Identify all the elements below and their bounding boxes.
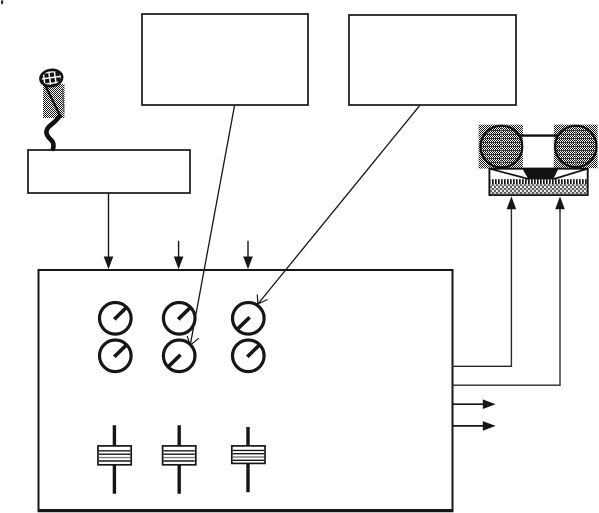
- tape recorder: tape path left: [490, 169, 528, 179]
- knob row1 col3: [233, 303, 265, 335]
- box: label box 2 (top right): [349, 15, 516, 105]
- wire: pointer line from box 2 to knob (open arrow): [257, 106, 419, 304]
- tape recorder: base cabinet: [489, 169, 587, 195]
- tape recorder: right reel: [555, 126, 596, 167]
- knob row2 col2: [163, 340, 195, 372]
- knob row2 col3: [233, 340, 265, 372]
- box: mixer console: [39, 270, 453, 511]
- wire: mixer output 1 to recorder (up arrow): [452, 196, 516, 366]
- wire: mixer output 3 (right arrow): [452, 399, 496, 409]
- microphone head (windscreen): [39, 68, 63, 87]
- tape recorder: control strip (dashes): [490, 179, 586, 184]
- fader 3: [232, 427, 265, 492]
- tape recorder: control strip (checker): [490, 184, 586, 194]
- tape recorder: tape path right: [554, 169, 588, 179]
- microphone body: [43, 84, 65, 118]
- tape recorder: left reel: [481, 126, 523, 168]
- wire: short down arrow into mixer (channel 2): [174, 241, 184, 269]
- wire: microphone cable: [46, 116, 59, 149]
- tape recorder: tape between reels: [520, 134, 558, 136]
- fader 2: [163, 425, 196, 494]
- knob row2 col1: [100, 340, 132, 372]
- wire: mixer output 4 (right arrow): [452, 421, 496, 431]
- box: microphone label box: [28, 150, 190, 193]
- box: label box 1 (top middle): [142, 14, 308, 105]
- wire: mic box to mixer with arrow: [104, 194, 114, 270]
- stray mark (apostrophe) top-left corner: [1, 1, 3, 5]
- tape recorder: right reel backplate: [554, 125, 598, 169]
- knob row1 col1: [100, 303, 132, 335]
- wire: short down arrow into mixer (channel 3): [243, 241, 253, 269]
- mixer console bottom edge (thick): [38, 509, 454, 512]
- wire: mixer output 2 to recorder (up arrow): [452, 196, 565, 385]
- fader 1: [98, 425, 131, 494]
- knob row1 col2: [163, 303, 195, 335]
- wire: pointer line from box 1 to knob (open arrow): [187, 106, 234, 345]
- tape recorder: head cover trapezoid: [522, 168, 559, 180]
- tape recorder: left reel backplate: [479, 125, 523, 169]
